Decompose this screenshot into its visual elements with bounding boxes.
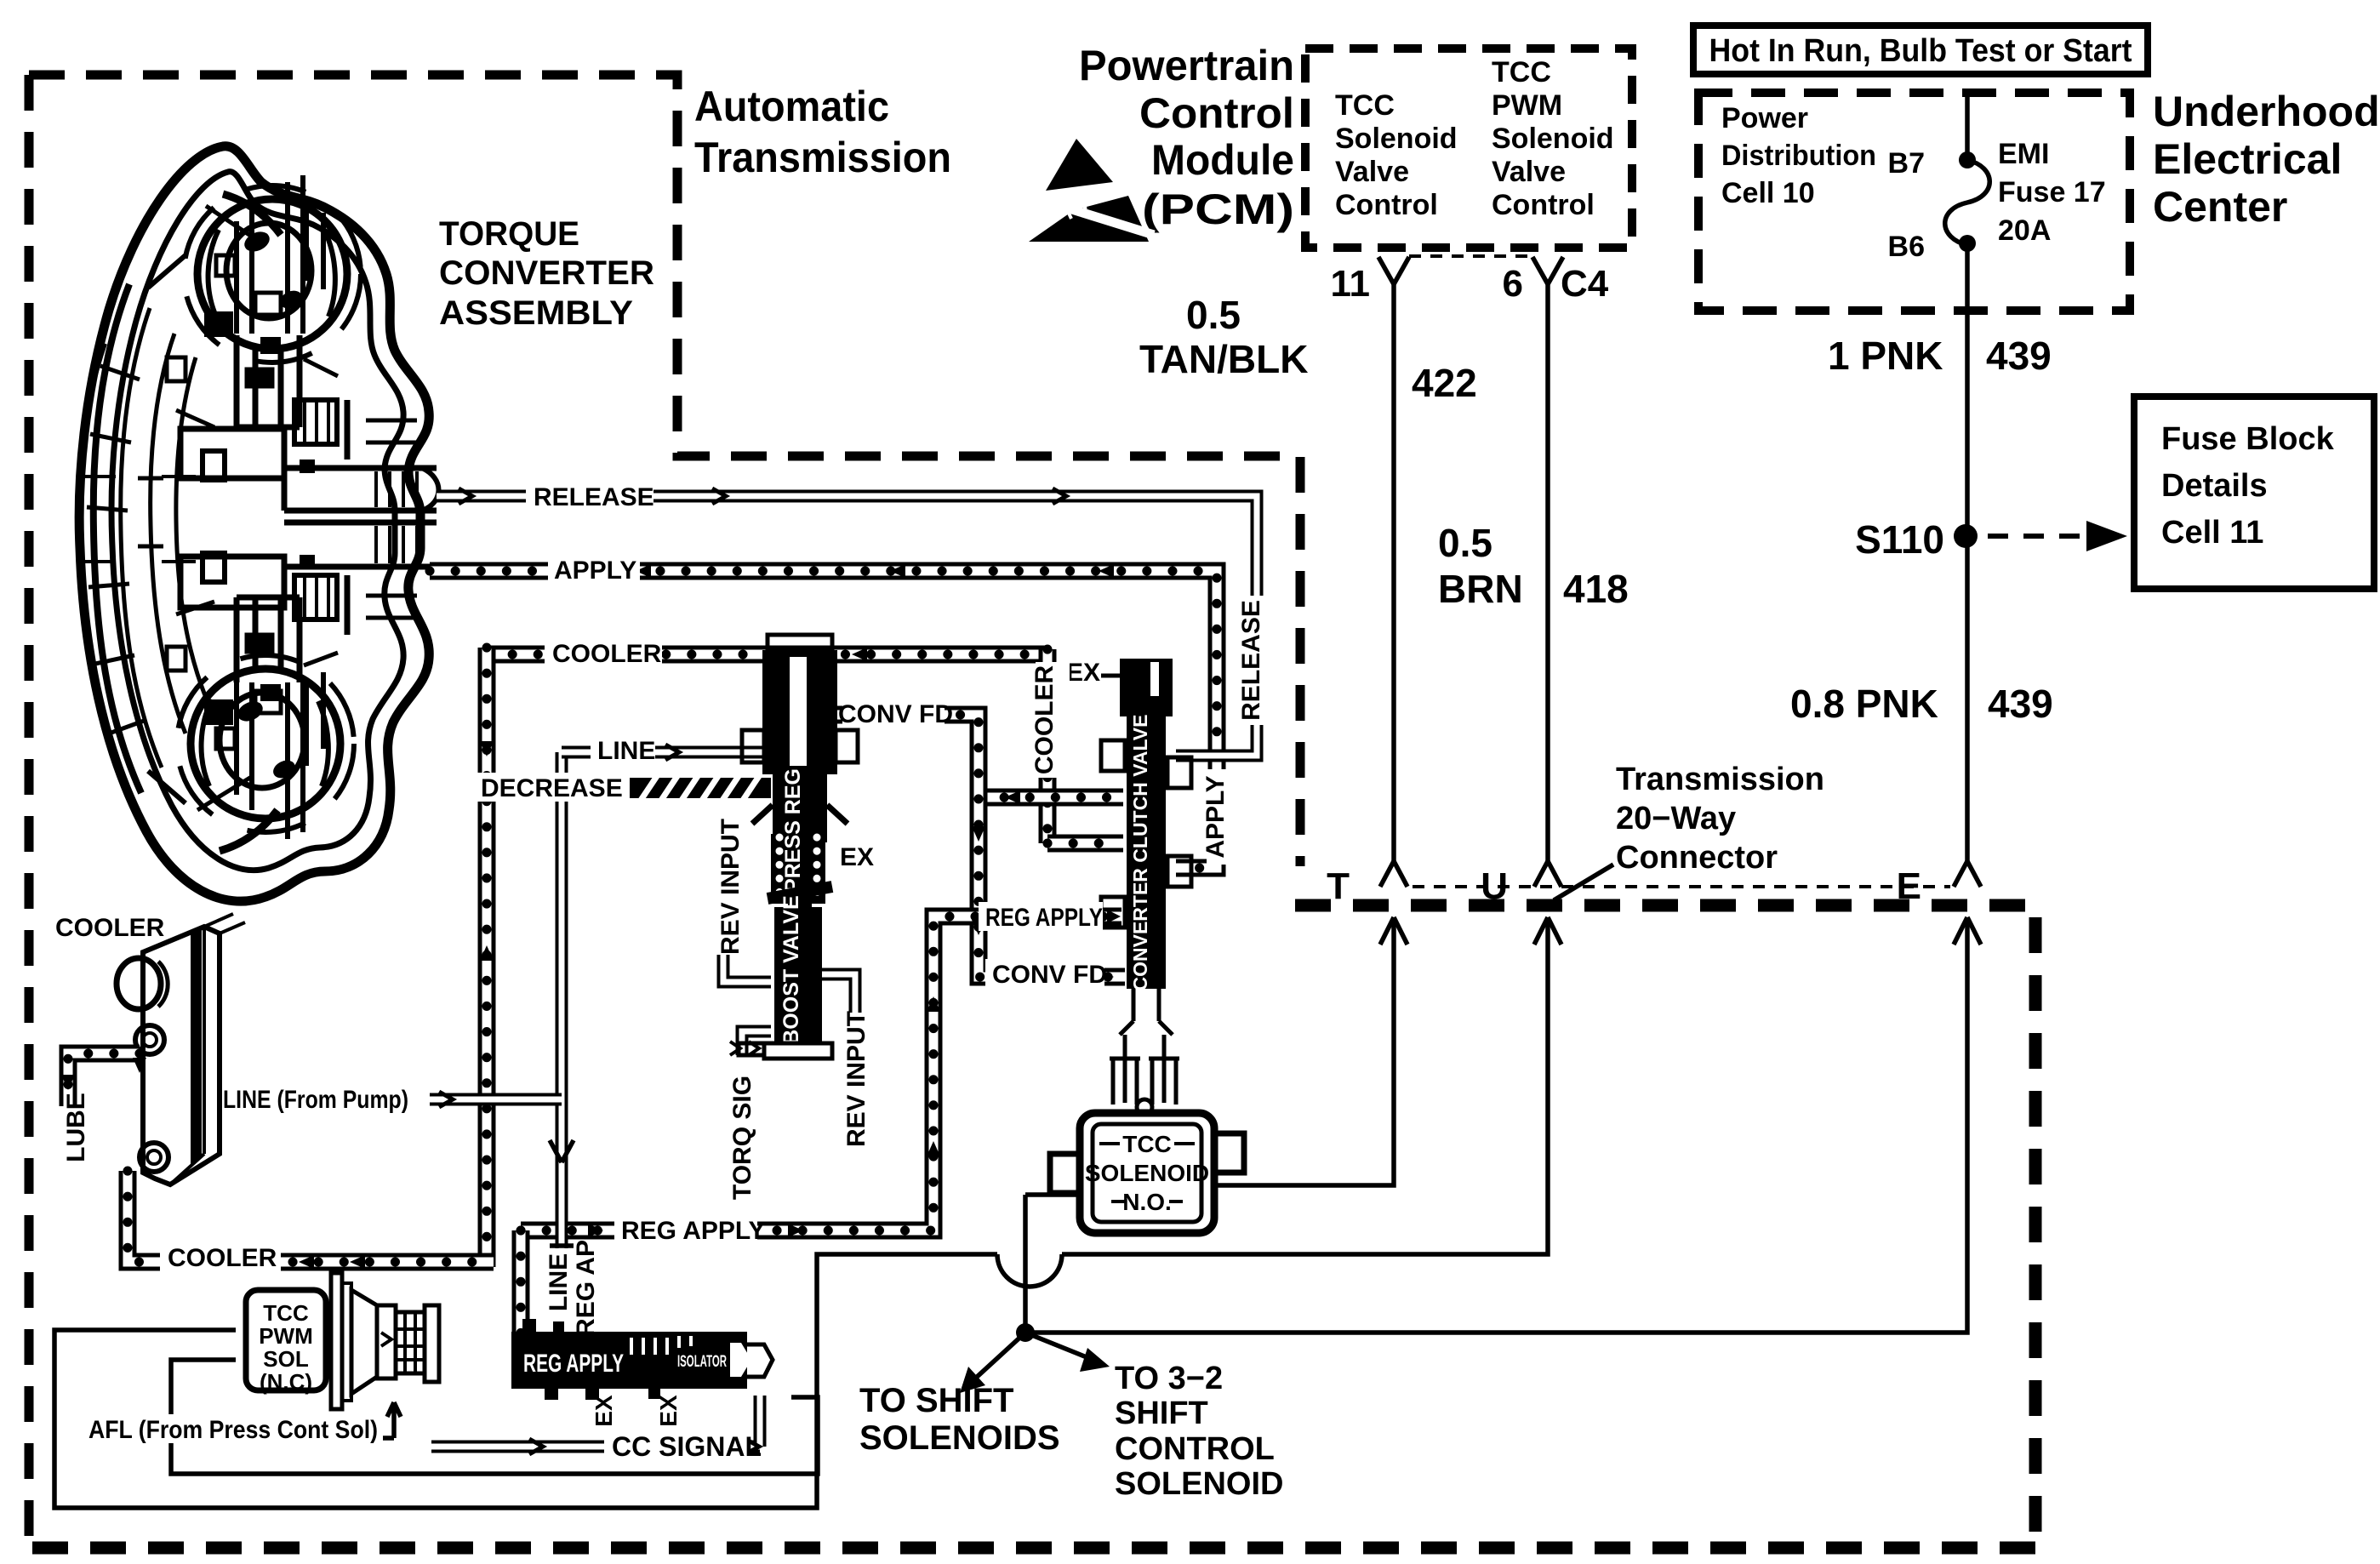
wire 418 TCC PWM control bbox=[1545, 283, 1550, 862]
svg-text:20A: 20A bbox=[1998, 214, 2051, 247]
release double line bbox=[437, 496, 1257, 756]
svg-text:Fuse Block: Fuse Block bbox=[2161, 421, 2335, 457]
svg-text:Transmission: Transmission bbox=[694, 134, 951, 181]
stator column lower bbox=[237, 597, 300, 682]
svg-text:REV INPUT: REV INPUT bbox=[842, 1011, 870, 1147]
thin dashed connector line at PCM pins bbox=[1409, 254, 1530, 258]
svg-text:Cell 11: Cell 11 bbox=[2161, 515, 2263, 551]
svg-text:439: 439 bbox=[1986, 334, 2052, 378]
svg-text:CONTROL: CONTROL bbox=[1115, 1431, 1275, 1467]
svg-text:COOLER: COOLER bbox=[55, 914, 165, 942]
svg-text:LINE: LINE bbox=[597, 737, 655, 765]
svg-text:SOL: SOL bbox=[263, 1346, 309, 1372]
svg-text:Underhood: Underhood bbox=[2153, 88, 2380, 135]
fuse block details box bbox=[2134, 397, 2374, 589]
svg-text:COOLER: COOLER bbox=[168, 1244, 277, 1272]
TCC solenoid N.O. bbox=[1025, 1113, 1244, 1233]
svg-text:S110: S110 bbox=[1855, 517, 1944, 562]
power distribution dashed box bbox=[1698, 93, 2130, 311]
hydraulic line labels bbox=[526, 482, 654, 511]
TCC PWM solenoid N.C. bbox=[246, 1273, 439, 1409]
svg-text:418: 418 bbox=[1563, 567, 1629, 611]
extra density fills bbox=[204, 311, 233, 337]
wire E into transmission to junction bbox=[1025, 917, 1967, 1333]
turbine circle top bbox=[197, 199, 347, 349]
svg-text:PWM: PWM bbox=[1492, 89, 1562, 122]
apply line beaded bbox=[430, 571, 1217, 868]
svg-text:APPLY: APPLY bbox=[1201, 775, 1230, 858]
svg-text:Hot In Run, Bulb Test or Start: Hot In Run, Bulb Test or Start bbox=[1709, 33, 2132, 69]
torq sig chevrons bbox=[730, 1042, 759, 1055]
svg-text:SOLENOID: SOLENOID bbox=[1115, 1466, 1283, 1502]
svg-text:Module: Module bbox=[1151, 136, 1294, 184]
converter clutch valve bbox=[1101, 659, 1191, 1115]
svg-text:TCC: TCC bbox=[1492, 56, 1551, 88]
converter outer shell bbox=[79, 146, 429, 901]
svg-text:EX: EX bbox=[591, 1395, 617, 1427]
decrease hatched passage bbox=[628, 776, 771, 802]
TCC solenoid feed wire to junction bbox=[1023, 1195, 1028, 1333]
svg-text:REV INPUT: REV INPUT bbox=[716, 819, 745, 955]
svg-text:Fuse 17: Fuse 17 bbox=[1998, 176, 2106, 208]
svg-text:TCC: TCC bbox=[1335, 89, 1395, 122]
transmission bottom box heavy dashed border bbox=[24, 905, 2035, 1548]
inner wire loop TCC PWM circuit bbox=[171, 1360, 818, 1474]
line arrow down bbox=[550, 1140, 574, 1162]
svg-text:11: 11 bbox=[1330, 263, 1370, 305]
svg-text:(PCM): (PCM) bbox=[1142, 186, 1294, 233]
cooler left vertical beaded bbox=[478, 648, 496, 1267]
svg-text:SOLENOID: SOLENOID bbox=[1085, 1160, 1209, 1186]
cooler bottom beaded to radiator bbox=[128, 1171, 494, 1262]
svg-text:EX: EX bbox=[1066, 659, 1100, 687]
cooler stub lower into clutch valve bbox=[1047, 835, 1123, 853]
svg-text:422: 422 bbox=[1412, 361, 1477, 405]
svg-text:CONV FD: CONV FD bbox=[838, 700, 953, 728]
svg-text:TCC: TCC bbox=[1122, 1131, 1172, 1157]
svg-text:6: 6 bbox=[1503, 263, 1523, 305]
wire T into transmission bbox=[1214, 917, 1394, 1185]
thin dashed connector line at 20-way connector bbox=[1413, 885, 1950, 888]
svg-text:REG APPLY: REG APPLY bbox=[523, 1350, 624, 1378]
rev input lower double line bbox=[822, 974, 855, 1013]
svg-text:B7: B7 bbox=[1888, 147, 1925, 180]
cc signal double line bbox=[431, 1396, 760, 1447]
radiator lower fitting bbox=[140, 1143, 168, 1172]
svg-text:PRESS REG: PRESS REG bbox=[781, 768, 805, 893]
line vertical end tick bbox=[550, 1243, 574, 1248]
svg-text:RELEASE: RELEASE bbox=[534, 483, 654, 511]
svg-text:CC SIGNAL: CC SIGNAL bbox=[612, 1431, 762, 1462]
svg-text:PWM: PWM bbox=[259, 1323, 313, 1349]
reg apply beaded drop to isolator bbox=[512, 1230, 530, 1334]
reg apply isolator valve bbox=[511, 1319, 773, 1400]
svg-text:AFL (From Press Cont Sol): AFL (From Press Cont Sol) bbox=[88, 1416, 378, 1444]
shaft nose cap bbox=[422, 468, 439, 511]
lube beaded line bbox=[68, 1053, 140, 1106]
svg-text:T: T bbox=[1327, 865, 1350, 907]
svg-text:TCC: TCC bbox=[263, 1300, 309, 1326]
svg-text:Valve: Valve bbox=[1335, 156, 1409, 188]
flow chevrons on channel lines bbox=[439, 488, 1066, 1454]
hot in run bulb test box bbox=[1693, 26, 2148, 74]
svg-text:CONV FD: CONV FD bbox=[992, 961, 1107, 989]
hub blocks bbox=[180, 429, 284, 608]
svg-text:Electrical: Electrical bbox=[2153, 135, 2342, 183]
solenoid mount bracket left bbox=[1050, 1154, 1077, 1193]
shell inner echo bbox=[111, 172, 403, 870]
solenoid left terminal wire bbox=[1025, 1192, 1080, 1197]
arrow to shift solenoids bbox=[975, 1333, 1025, 1378]
svg-text:LINE (From Pump): LINE (From Pump) bbox=[223, 1086, 408, 1114]
svg-text:Transmission: Transmission bbox=[1616, 762, 1824, 797]
svg-text:EX: EX bbox=[655, 1395, 682, 1427]
svg-text:Control: Control bbox=[1139, 89, 1294, 137]
center line ticks bbox=[82, 477, 196, 562]
lower trunk rails bbox=[237, 682, 303, 839]
svg-text:CONVERTER: CONVERTER bbox=[439, 254, 654, 292]
svg-text:Control: Control bbox=[1335, 189, 1438, 221]
torque converter assembly bbox=[78, 146, 439, 901]
svg-text:Solenoid: Solenoid bbox=[1335, 123, 1458, 155]
reg apply beaded line bbox=[521, 916, 1122, 1230]
svg-text:439: 439 bbox=[1988, 682, 2053, 726]
svg-text:REG APPLY: REG APPLY bbox=[621, 1217, 766, 1245]
input shaft upper bbox=[284, 468, 437, 511]
svg-text:CONVERTER CLUTCH VALVE: CONVERTER CLUTCH VALVE bbox=[1129, 715, 1151, 991]
solenoid mount bracket right bbox=[1217, 1133, 1244, 1173]
hub spline block bbox=[294, 400, 337, 444]
splice S110 bbox=[1954, 524, 1978, 548]
rev input upper double line bbox=[723, 955, 771, 982]
svg-text:TORQ SIG: TORQ SIG bbox=[728, 1076, 756, 1200]
cooler radiator bbox=[117, 914, 245, 1184]
wire 439 from fuse bbox=[1965, 93, 1970, 862]
extra shell arcs bbox=[176, 357, 206, 698]
svg-text:EX: EX bbox=[840, 843, 874, 871]
svg-text:Control: Control bbox=[1492, 189, 1595, 221]
line feed to press reg valve bbox=[562, 746, 768, 759]
svg-text:REG APPLY: REG APPLY bbox=[985, 904, 1103, 932]
svg-text:EMI: EMI bbox=[1998, 138, 2049, 170]
line from pump double line bbox=[430, 1093, 562, 1106]
texture strokes bbox=[138, 206, 338, 810]
arrow to 3-2 shift control solenoid bbox=[1025, 1333, 1091, 1359]
svg-text:20−Way: 20−Way bbox=[1616, 801, 1736, 836]
torq sig double line bbox=[742, 1031, 771, 1055]
svg-text:Cell 10: Cell 10 bbox=[1721, 177, 1815, 209]
radiator upper fitting bbox=[135, 1025, 164, 1054]
svg-text:ASSEMBLY: ASSEMBLY bbox=[439, 294, 633, 332]
turbine circle bottom bbox=[191, 669, 340, 819]
svg-text:(N.C): (N.C) bbox=[260, 1369, 312, 1395]
svg-text:ISOLATOR: ISOLATOR bbox=[677, 1353, 727, 1371]
svg-text:0.5: 0.5 bbox=[1438, 521, 1492, 565]
svg-text:SOLENOIDS: SOLENOIDS bbox=[859, 1419, 1060, 1457]
radiator port ring bbox=[117, 958, 161, 1009]
line vertical double line bbox=[556, 752, 568, 1248]
svg-text:0.5: 0.5 bbox=[1186, 293, 1241, 337]
radial spokes left crescent bbox=[87, 366, 146, 733]
svg-text:Automatic: Automatic bbox=[694, 83, 889, 130]
svg-text:Connector: Connector bbox=[1616, 840, 1778, 876]
upper trunk rails bbox=[237, 175, 303, 334]
svg-text:REG AP: REG AP bbox=[572, 1240, 600, 1337]
svg-text:TO 3−2: TO 3−2 bbox=[1115, 1361, 1223, 1396]
conv fd beaded line bbox=[832, 715, 1125, 977]
cooler vertical at clutch valve bbox=[1039, 649, 1057, 843]
svg-text:BRN: BRN bbox=[1438, 567, 1523, 611]
svg-text:RELEASE: RELEASE bbox=[1237, 600, 1265, 721]
svg-text:SHIFT: SHIFT bbox=[1115, 1396, 1208, 1431]
svg-text:APPLY: APPLY bbox=[554, 557, 636, 585]
svg-text:Power: Power bbox=[1721, 102, 1808, 134]
svg-text:C4: C4 bbox=[1561, 263, 1609, 305]
automatic transmission dashed boundary top box bbox=[29, 75, 1300, 866]
svg-text:N.O.: N.O. bbox=[1122, 1189, 1172, 1215]
AFL bracket arrow bbox=[382, 1402, 401, 1438]
wire 422 TCC solenoid control bbox=[1391, 283, 1396, 862]
svg-text:Valve: Valve bbox=[1492, 156, 1566, 188]
ESD symbol bbox=[1029, 139, 1154, 242]
svg-text:B6: B6 bbox=[1888, 231, 1925, 263]
svg-text:TAN/BLK: TAN/BLK bbox=[1139, 337, 1308, 381]
svg-text:COOLER: COOLER bbox=[552, 640, 662, 668]
svg-text:DECREASE: DECREASE bbox=[481, 774, 623, 802]
svg-text:U: U bbox=[1481, 865, 1508, 907]
svg-text:COOLER: COOLER bbox=[1030, 665, 1059, 775]
svg-text:LUBE: LUBE bbox=[62, 1093, 90, 1162]
svg-text:BOOST VALVE: BOOST VALVE bbox=[779, 895, 803, 1044]
cooler line beaded top bbox=[487, 646, 1047, 664]
EMI fuse element bbox=[1945, 160, 1990, 245]
svg-text:E: E bbox=[1897, 865, 1921, 907]
svg-text:LINE: LINE bbox=[545, 1253, 573, 1311]
beaded line flow arrows bbox=[61, 564, 1114, 1269]
cooler stub upper into clutch valve bbox=[979, 789, 1123, 807]
svg-text:TORQUE: TORQUE bbox=[439, 215, 579, 253]
PCM dashed box bbox=[1305, 49, 1632, 248]
svg-text:Distribution: Distribution bbox=[1721, 140, 1876, 172]
svg-text:Details: Details bbox=[2161, 468, 2268, 504]
input shaft lower bbox=[284, 522, 437, 567]
stator column upper bbox=[237, 335, 300, 427]
svg-text:0.8 PNK: 0.8 PNK bbox=[1790, 682, 1938, 726]
press reg boost valve assembly bbox=[739, 635, 858, 1059]
wire U into transmission with hop bbox=[54, 917, 1548, 1508]
left shell arcs bbox=[94, 284, 141, 793]
svg-text:TO SHIFT: TO SHIFT bbox=[859, 1382, 1013, 1419]
svg-text:Solenoid: Solenoid bbox=[1492, 123, 1614, 155]
svg-text:1 PNK: 1 PNK bbox=[1828, 334, 1943, 378]
automatic transmission dashed left edge bbox=[25, 75, 34, 1550]
svg-text:Powertrain: Powertrain bbox=[1079, 42, 1294, 89]
svg-text:Center: Center bbox=[2153, 183, 2287, 231]
